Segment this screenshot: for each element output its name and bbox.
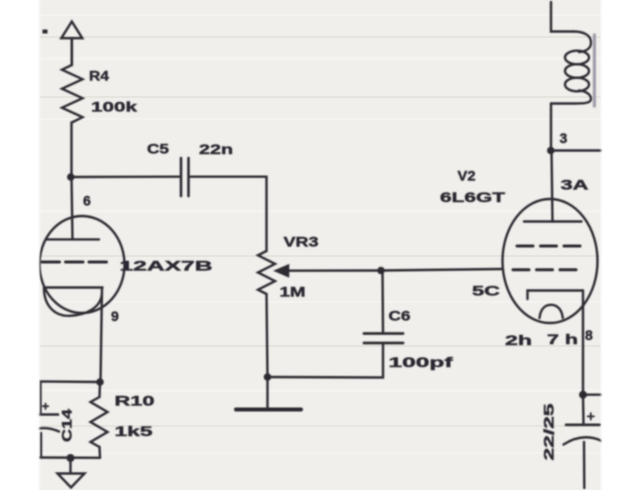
svg-text:1M: 1M [280,284,306,300]
V1 cathode lead [101,288,103,383]
R10 top lead [98,382,101,397]
R10 bottom lead [98,447,101,458]
svg-text:C5: C5 [147,141,169,157]
svg-text:12AX7B: 12AX7B [120,258,213,274]
wire node to C6 bottom [268,344,384,378]
tube V2 envelope [503,199,598,323]
wire winding to plate node [550,104,552,151]
resistor R4 [62,65,83,123]
svg-text:V2: V2 [458,168,476,184]
svg-text:VR3: VR3 [284,234,319,250]
transformer core line [593,35,596,106]
svg-text:22/25: 22/25 [541,403,557,460]
svg-text:3: 3 [560,130,568,146]
svg-text:C6: C6 [389,308,411,324]
svg-text:R10: R10 [115,393,155,409]
wire node to right edge [583,394,603,396]
capacitor C5 [180,158,183,196]
svg-text:100k: 100k [91,99,137,115]
transformer primary top lead [551,2,574,32]
V2 cathode bracket [528,291,584,300]
capacitor 22/25 top plate [566,423,600,426]
V1 plate lead [72,177,73,239]
potentiometer VR3 [258,251,275,294]
node plate junction [67,173,75,181]
node ground junction [67,454,75,462]
V1 plate [46,238,99,240]
V2 plate lead [552,151,553,222]
V1 cathode bowl [44,288,102,316]
transformer winding bottom bump [551,91,591,104]
power symbol (up arrow) [61,22,82,39]
node B+ marker (small print artifact) [43,30,48,34]
wire wiper node to V2 grid [381,269,503,271]
node VR3 bottom [264,373,272,381]
wire R4 to plate node [70,123,72,178]
svg-text:8: 8 [585,327,593,343]
svg-text:22n: 22n [199,141,233,157]
V2 grid 2 (dashed) [513,268,582,271]
V1 cathode [44,286,103,288]
wire node to C14 top [41,381,101,413]
V2 cathode lead [582,291,584,395]
V2 cathode dome [540,305,563,318]
V2 plate [524,220,582,222]
node cathode junction [96,378,104,386]
svg-text:2h: 2h [505,332,532,348]
svg-text:3A: 3A [561,177,589,193]
V2 grid 1 (dashed) [517,245,582,248]
svg-text:6: 6 [83,193,91,209]
ground bar [236,408,301,412]
wire VR3 bottom [267,294,268,377]
right scan margin [601,0,640,490]
node plate junction V2 [547,147,555,155]
node wiper junction [377,267,385,275]
wire node to right edge [551,149,603,151]
wire bottom rail [40,456,101,459]
wire to ground arrow [69,458,71,473]
wire node to C5 [71,175,179,178]
wire wiper to node [286,269,381,272]
winding loop 2 [565,64,589,78]
capacitor C14 [26,413,58,416]
capacitor C14 plus [43,404,48,410]
svg-text:7 h: 7 h [547,331,578,347]
capacitor C6 [364,332,403,335]
transformer winding top bump [574,32,591,53]
svg-text:C14: C14 [59,409,75,442]
left scan margin [0,0,39,490]
svg-text:100pf: 100pf [389,354,454,370]
tube V1 envelope [40,216,125,313]
wire node to ground [266,377,268,408]
wire node to C22 [582,395,585,424]
wire C5 to corner [189,177,267,251]
winding loop 1 [565,51,589,65]
node cathode junction V2 [579,391,587,399]
ground symbol (down arrow) [58,474,85,488]
resistor R10 [91,397,108,447]
winding loop 3 [565,78,589,92]
svg-text:1k5: 1k5 [115,423,153,439]
wire triangle to R4 [71,38,74,65]
C22 bottom lead [583,442,586,488]
V1 grid (dashed) [42,261,107,264]
capacitor 22/25 plus [588,413,594,419]
svg-text:5C: 5C [472,283,500,299]
svg-text:9: 9 [111,308,119,324]
wire node to C6 top [381,271,384,334]
capacitor 22/25 curved plate [564,437,603,444]
svg-text:R4: R4 [89,68,109,84]
svg-text:6L6GT: 6L6GT [440,189,506,205]
C14 bottom lead [40,433,42,458]
VR3 wiper arrow [275,265,289,277]
